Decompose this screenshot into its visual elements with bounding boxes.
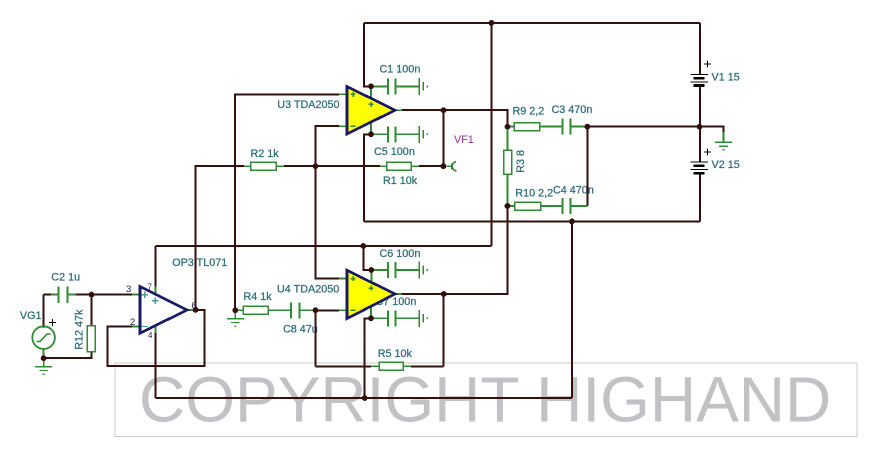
wire R12 top to C2/R12 node <box>90 295 92 325</box>
wire R5 loop horizontals <box>316 365 372 367</box>
resistor R2 1k box <box>251 162 277 170</box>
resistor R5 10k box <box>379 362 403 370</box>
ground at C1 (rotated) <box>418 78 420 95</box>
wire R2 to feedback junction <box>284 165 316 167</box>
wire U3 noninverting input down to R4 node <box>235 94 339 310</box>
capacitor C2 1u leads and plates <box>51 286 76 302</box>
node V+ rail tap <box>489 20 495 26</box>
node U4 output <box>441 291 447 297</box>
svg-text:C6 100n: C6 100n <box>380 248 421 260</box>
svg-text:R2 1k: R2 1k <box>251 148 280 160</box>
ground at VG1 <box>43 358 45 366</box>
wire U3 output to R9 junction <box>402 110 508 126</box>
wire R1 to VF1 node <box>419 165 443 167</box>
op-amp OP3 TL071 <box>140 283 187 341</box>
resistor R10 2,2 box <box>515 202 541 210</box>
node battery midpoint 0V <box>697 124 703 130</box>
wire C3 node to battery mid <box>586 127 588 206</box>
capacitor C7 100n leads and plates <box>371 310 419 326</box>
U4 power pin stubs <box>370 270 372 318</box>
svg-text:4: 4 <box>148 331 153 340</box>
resistor R4 1k box <box>243 306 268 314</box>
wire U4 output down to R5 loop <box>443 294 445 366</box>
svg-text:R4 1k: R4 1k <box>244 291 273 303</box>
capacitor C8 47u plates and lead <box>291 302 316 318</box>
capacitor C6 100n leads and plates <box>371 262 419 278</box>
wire mid junction to ground stub <box>700 127 724 134</box>
resistor R12 47k leads <box>90 325 92 352</box>
svg-text:C8 47u: C8 47u <box>283 323 318 335</box>
wire upper V- rail <box>364 221 700 223</box>
wire U4 output tip <box>402 293 444 295</box>
resistor R2 1k leads <box>244 165 284 167</box>
VG1 top stub <box>43 326 45 328</box>
resistor R12 47k box <box>87 326 95 352</box>
wire U3 inverting input to feedback node <box>316 126 340 166</box>
wire top V+ rail <box>364 22 700 24</box>
svg-text:R9 2,2: R9 2,2 <box>513 106 545 118</box>
wire right edge to battery V1 <box>699 23 701 75</box>
battery V2 <box>691 149 712 174</box>
wire OP3 V- down to bottom rail <box>154 333 156 398</box>
svg-text:V1 15: V1 15 <box>712 71 740 83</box>
svg-text:R1 10k: R1 10k <box>383 175 418 187</box>
wire OP3 + input from C2/R12 node <box>92 294 133 296</box>
wire U3 V- jog to lower rail <box>364 134 371 221</box>
ground at C5 (rotated) <box>418 126 420 143</box>
wire mid junction to C3/C4 node <box>587 126 700 128</box>
VG1 waveform glyph <box>37 334 51 342</box>
wire mid junction to V2 top <box>699 127 701 162</box>
U3 power pin stubs <box>370 86 372 134</box>
svg-text:R5 10k: R5 10k <box>378 348 413 360</box>
svg-text:U3 TDA2050: U3 TDA2050 <box>277 99 339 111</box>
node C2/R12 input junction <box>89 292 95 298</box>
wire feedback junction down to U4 + input <box>316 166 340 278</box>
resistor R9 2,2 box <box>514 123 540 131</box>
svg-text:U4 TDA2050: U4 TDA2050 <box>277 283 339 295</box>
wire VG1 bottom to R12 bottom <box>44 352 92 358</box>
resistor R4 1k leads <box>235 309 291 311</box>
wire bottom V- rail <box>155 397 572 399</box>
wire feedback junction to R1 <box>316 165 381 167</box>
resistor R3 8 leads <box>507 127 509 206</box>
node U3 V- pin / C5 <box>368 131 374 137</box>
wire C2 left lead corner down to VG1 <box>44 295 51 327</box>
svg-text:VG1: VG1 <box>20 310 42 322</box>
ground at R4 <box>234 310 236 318</box>
svg-text:3: 3 <box>126 284 131 295</box>
node VF1 probe point <box>441 163 447 169</box>
wire R5 loop left vertical <box>315 310 317 366</box>
U3 input stubs <box>339 94 402 126</box>
resistor R9 2,2 leads <box>508 126 588 128</box>
wire OP3 feedback loop <box>108 310 205 366</box>
node R9/R3 junction <box>505 124 511 130</box>
capacitor C3 470n plates <box>563 119 571 135</box>
resistor R10 2,2 leads <box>508 205 588 207</box>
resistor R3 8 box <box>504 150 512 174</box>
svg-text:C3 470n: C3 470n <box>552 104 593 116</box>
wire U3 output down to VF1 node <box>442 110 444 166</box>
node R3/R10 junction <box>505 203 511 209</box>
node U4 V+ pin / C6 <box>369 267 375 273</box>
wire U4 V+ branch <box>363 246 371 270</box>
node C3/C4 output join <box>585 124 591 130</box>
wire V+ mid rail <box>491 23 493 246</box>
svg-text:V2 15: V2 15 <box>712 159 740 171</box>
node VG1 ground junction <box>41 355 47 361</box>
wire OP3 V+ feed <box>154 246 156 287</box>
svg-text:C1 100n: C1 100n <box>380 63 421 75</box>
VG1 bottom stub <box>43 349 45 358</box>
node OP3 output pin 6 <box>193 307 199 313</box>
OP3 power stubs <box>154 287 156 334</box>
VF1 probe <box>447 161 457 171</box>
node U4 V- pin / C7 <box>368 315 374 321</box>
resistor R1 10k box <box>387 162 412 170</box>
svg-text:C5 100n: C5 100n <box>374 146 415 158</box>
node U3 output <box>441 107 447 113</box>
wire C2 right lead to node <box>76 294 92 296</box>
svg-text:OP3 TL071: OP3 TL071 <box>172 257 227 269</box>
node R2/R1 feedback junction <box>313 163 319 169</box>
capacitor C5 100n leads and plates <box>371 126 419 142</box>
wire left edge down to U3 V+ <box>364 23 371 86</box>
wire lower rail up to upper V- rail <box>571 222 573 399</box>
ground at battery mid <box>723 132 725 142</box>
battery V1 <box>691 61 712 86</box>
node R4 ground junction <box>232 307 238 313</box>
ground at C6 (rotated) <box>418 262 420 279</box>
svg-text:R10 2,2: R10 2,2 <box>515 188 553 200</box>
wire U4 output vertical to R10 junction <box>444 206 508 294</box>
node V- rail tap <box>569 219 575 225</box>
wire V1 to mid junction <box>699 86 701 127</box>
op-amp U4 TDA2050 <box>347 270 395 318</box>
resistor R5 10k leads <box>371 365 411 367</box>
svg-text:VF1: VF1 <box>454 134 474 146</box>
wire feedback row left: OP3 out up to R2 <box>196 166 244 310</box>
node U3 V+ pin / C1 <box>368 84 374 90</box>
svg-text:R12 47k: R12 47k <box>74 309 86 350</box>
wire C8 junction to U4 inverting input <box>316 309 340 311</box>
OP3 input stubs <box>132 295 196 327</box>
resistor R1 10k leads <box>380 165 419 167</box>
capacitor C4 470n plates <box>563 198 571 214</box>
capacitor C1 100n leads and plates <box>371 78 419 94</box>
node U4 V+ branch tap <box>360 243 366 249</box>
watermark box <box>115 363 857 437</box>
svg-text:R3 8: R3 8 <box>515 150 527 173</box>
op-amp U3 TDA2050 <box>347 87 395 135</box>
VG1 source circle <box>32 326 55 349</box>
wire U4 V- jog down <box>365 318 371 398</box>
svg-text:C2 1u: C2 1u <box>51 272 80 284</box>
svg-text:COPYRIGHT HIGHAND: COPYRIGHT HIGHAND <box>139 364 831 436</box>
node C8/U4 inverting input <box>313 307 319 313</box>
ground at C7 (rotated) <box>418 310 420 327</box>
VG1 plus sign <box>49 319 56 326</box>
node U4 V- rail tap <box>362 395 368 401</box>
wire V2 bottom to V- rail <box>699 174 701 222</box>
U4 input stubs <box>339 279 402 311</box>
